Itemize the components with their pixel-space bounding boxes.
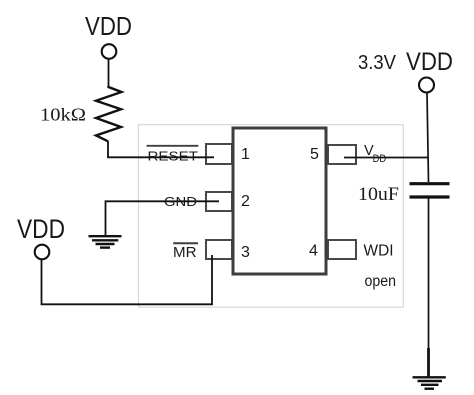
svg-text:open: open bbox=[365, 273, 397, 290]
svg-text:RESET: RESET bbox=[148, 149, 199, 163]
svg-text:10kΩ: 10kΩ bbox=[40, 105, 86, 125]
svg-text:DD: DD bbox=[373, 153, 387, 165]
svg-text:VDD: VDD bbox=[85, 11, 132, 41]
svg-text:1: 1 bbox=[241, 146, 250, 163]
svg-text:4: 4 bbox=[309, 243, 318, 260]
svg-text:GND: GND bbox=[164, 195, 197, 209]
svg-text:10uF: 10uF bbox=[358, 184, 399, 205]
svg-text:3: 3 bbox=[241, 244, 250, 261]
svg-text:WDI: WDI bbox=[364, 242, 394, 259]
svg-text:VDD: VDD bbox=[17, 214, 65, 244]
svg-text:5: 5 bbox=[310, 146, 319, 163]
svg-text:3.3V: 3.3V bbox=[358, 52, 397, 74]
svg-text:VDD: VDD bbox=[406, 48, 453, 76]
svg-text:2: 2 bbox=[241, 193, 250, 210]
svg-text:MR: MR bbox=[173, 245, 197, 261]
